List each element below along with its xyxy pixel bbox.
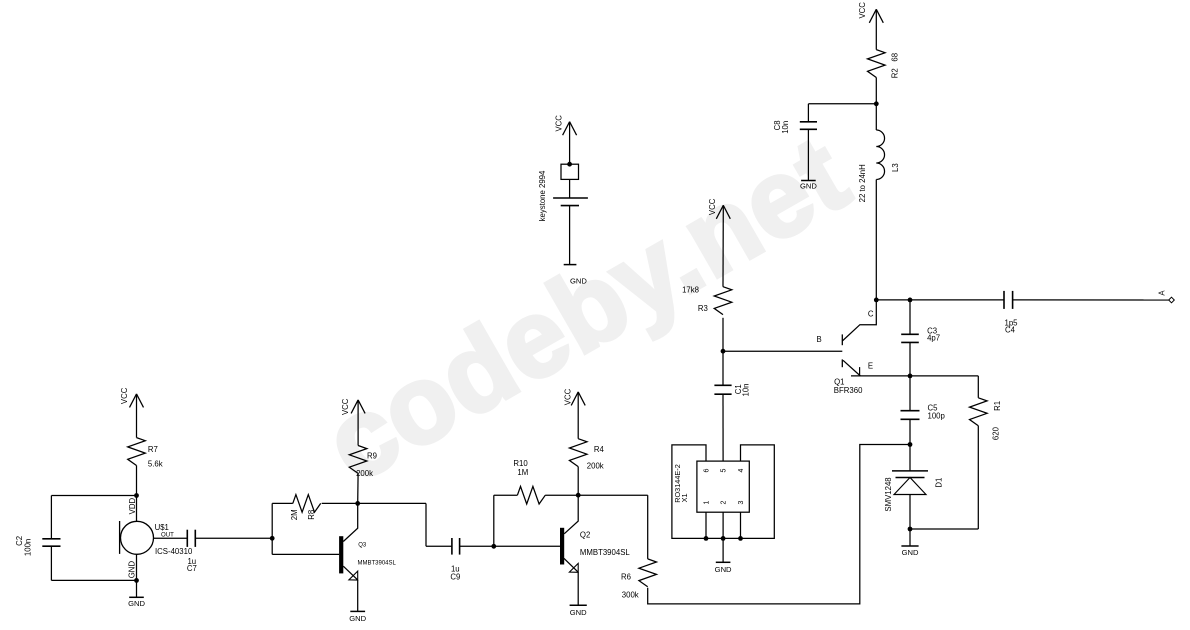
svg-text:GND: GND xyxy=(570,608,587,617)
svg-text:R3: R3 xyxy=(698,304,708,313)
svg-text:1M: 1M xyxy=(517,468,528,477)
svg-text:R7: R7 xyxy=(148,445,158,454)
svg-text:VCC: VCC xyxy=(708,198,717,215)
svg-text:200k: 200k xyxy=(587,462,604,471)
svg-text:keystone 2994: keystone 2994 xyxy=(538,170,547,221)
svg-text:R6: R6 xyxy=(621,572,631,581)
svg-text:VCC: VCC xyxy=(120,387,129,404)
svg-text:MMBT3904SL: MMBT3904SL xyxy=(358,560,397,566)
svg-text:R4: R4 xyxy=(594,445,605,454)
svg-text:2: 2 xyxy=(721,501,728,505)
svg-text:GND: GND xyxy=(800,182,817,191)
svg-text:4: 4 xyxy=(738,468,745,472)
svg-text:MMBT3904SL: MMBT3904SL xyxy=(580,548,630,557)
svg-text:VCC: VCC xyxy=(555,115,564,132)
svg-text:OUT: OUT xyxy=(161,531,174,538)
svg-text:C: C xyxy=(868,309,874,318)
svg-text:BFR360: BFR360 xyxy=(834,386,863,395)
svg-text:D1: D1 xyxy=(935,478,944,488)
svg-text:X1: X1 xyxy=(680,493,689,502)
svg-text:R1: R1 xyxy=(993,401,1002,411)
svg-text:GND: GND xyxy=(127,561,136,579)
svg-text:ICS-40310: ICS-40310 xyxy=(155,547,193,556)
svg-text:VCC: VCC xyxy=(341,398,350,415)
svg-text:68: 68 xyxy=(890,53,899,62)
svg-text:5: 5 xyxy=(721,468,728,472)
svg-text:VCC: VCC xyxy=(564,388,573,405)
svg-text:GND: GND xyxy=(902,548,919,557)
svg-text:100p: 100p xyxy=(928,411,946,420)
svg-text:5.6k: 5.6k xyxy=(148,459,163,468)
svg-text:300k: 300k xyxy=(622,591,639,600)
svg-text:1: 1 xyxy=(704,501,711,505)
svg-text:R9: R9 xyxy=(367,452,377,461)
svg-text:L3: L3 xyxy=(891,163,900,172)
svg-text:R8: R8 xyxy=(307,510,316,520)
svg-text:4p7: 4p7 xyxy=(927,334,940,343)
svg-text:R10: R10 xyxy=(513,459,528,468)
svg-text:GND: GND xyxy=(570,276,587,285)
svg-text:6: 6 xyxy=(704,468,711,472)
svg-text:620: 620 xyxy=(992,426,1001,440)
svg-text:Q3: Q3 xyxy=(358,543,367,549)
svg-text:10n: 10n xyxy=(742,383,751,396)
svg-text:100n: 100n xyxy=(24,539,33,556)
svg-text:3: 3 xyxy=(738,501,745,505)
svg-text:Q2: Q2 xyxy=(580,531,590,540)
svg-text:22 to 24nH: 22 to 24nH xyxy=(858,164,867,202)
svg-text:GND: GND xyxy=(349,614,366,623)
svg-text:2M: 2M xyxy=(290,509,299,520)
svg-text:R2: R2 xyxy=(890,68,899,78)
svg-text:A: A xyxy=(1157,290,1166,296)
svg-text:17k8: 17k8 xyxy=(682,285,699,294)
svg-text:10n: 10n xyxy=(781,121,790,134)
svg-text:SMV1248: SMV1248 xyxy=(884,477,893,511)
svg-text:C9: C9 xyxy=(450,573,460,582)
svg-text:B: B xyxy=(817,335,822,344)
svg-text:C7: C7 xyxy=(187,564,197,573)
svg-text:E: E xyxy=(868,361,873,370)
svg-text:C4: C4 xyxy=(1005,325,1016,334)
svg-text:GND: GND xyxy=(128,599,145,608)
svg-text:VCC: VCC xyxy=(858,2,867,19)
svg-text:GND: GND xyxy=(715,565,732,574)
svg-text:VDD: VDD xyxy=(128,498,137,515)
